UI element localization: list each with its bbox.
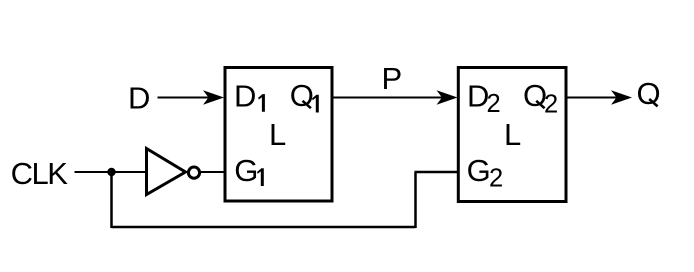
latch U2 box: [458, 68, 566, 202]
wire Q2 out: [567, 97, 618, 99]
node junction on CLK wire: [107, 168, 115, 176]
arrowhead into D1: [203, 90, 224, 104]
wire CLK to inverter: [75, 171, 147, 173]
svg-text:D: D: [128, 81, 150, 116]
svg-text:D: D: [234, 79, 256, 114]
arrowhead into D2: [437, 90, 458, 104]
inverter U3 bubble: [188, 167, 199, 178]
svg-text:G: G: [467, 153, 491, 188]
svg-text:L: L: [269, 117, 286, 152]
svg-text:2: 2: [489, 164, 503, 192]
wire Q1 to D2: [333, 97, 443, 99]
svg-text:L: L: [504, 117, 521, 152]
svg-text:CLK: CLK: [11, 156, 69, 191]
svg-text:P: P: [382, 61, 403, 96]
wire bottom run: [112, 226, 416, 229]
pin subscript 1 of G1: [257, 168, 264, 186]
svg-text:G: G: [234, 153, 258, 188]
latch U1 box: [225, 68, 332, 202]
wire into G2: [415, 171, 459, 174]
svg-text:2: 2: [487, 90, 501, 118]
pin label Q2: [523, 78, 547, 113]
pin label Q1: [290, 78, 314, 113]
wire D to U1: [158, 97, 211, 99]
arrowhead to Q: [611, 90, 632, 104]
pin subscript 1 of D1: [258, 94, 265, 112]
wire inverter to G1: [201, 171, 225, 173]
wire riser up to G2 level: [414, 172, 417, 228]
wire junction down: [110, 172, 113, 228]
label Q output: [637, 76, 661, 111]
inverter U3 triangle: [147, 149, 186, 195]
pin subscript 1 of Q1: [312, 95, 319, 113]
svg-text:2: 2: [544, 91, 558, 119]
